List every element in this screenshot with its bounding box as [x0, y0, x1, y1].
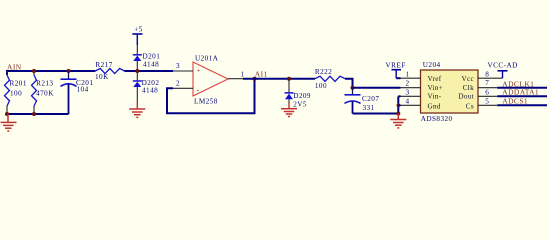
svg-text:Dout: Dout	[458, 93, 474, 101]
svg-text:R201: R201	[10, 80, 27, 88]
svg-text:8: 8	[485, 71, 489, 79]
svg-text:3: 3	[406, 88, 410, 96]
svg-text:R222: R222	[315, 68, 332, 76]
wire net ADDATA1	[497, 95, 547, 97]
junction diode clamp on AIN net	[135, 69, 139, 73]
junction D209 on AI1 net	[287, 77, 291, 81]
wire net ADCS1	[497, 104, 547, 106]
svg-text:LM258: LM258	[194, 97, 218, 105]
svg-text:100: 100	[315, 82, 327, 90]
wire VREF to pin 1	[396, 77, 400, 79]
pin 6 Dout of U204	[478, 95, 498, 97]
wire AIN left corner drop	[6, 70, 8, 75]
pin 2 Vin+ of U204	[401, 87, 421, 89]
svg-text:1: 1	[241, 71, 245, 79]
resistor R222	[315, 76, 345, 81]
svg-text:4148: 4148	[143, 61, 159, 69]
svg-text:4148: 4148	[142, 87, 158, 95]
wire R222 to Vin+ node	[345, 79, 353, 88]
junction feedback on output net	[253, 77, 257, 81]
svg-text:6: 6	[485, 88, 489, 96]
ground symbol below U204	[390, 114, 406, 128]
wire tie to pin 4 stub	[398, 104, 400, 106]
junction pin 4 on ground tie	[397, 104, 401, 108]
pin 1 Vref of U204	[401, 77, 421, 79]
pin 7 Clk of U204	[478, 87, 498, 89]
svg-text:104: 104	[77, 86, 89, 94]
resistor R217	[95, 68, 124, 73]
diode D201	[133, 45, 142, 71]
wire output net AI1	[243, 78, 315, 80]
wire tie to pin 3 stub	[398, 95, 400, 97]
pin 2 of U201A (inverting)	[173, 87, 193, 89]
wire feedback loop output to pin2	[167, 79, 255, 114]
svg-text:ADCS1: ADCS1	[502, 96, 528, 105]
power symbol VREF	[386, 62, 406, 79]
pin 5 Cs of U204	[478, 104, 498, 106]
svg-text:10K: 10K	[95, 73, 109, 81]
pin 3 of U201A (non-inverting)	[173, 70, 193, 72]
zener diode D209	[285, 79, 294, 109]
svg-text:Vin-: Vin-	[428, 93, 442, 101]
svg-text:7: 7	[485, 79, 489, 87]
svg-text:1: 1	[406, 71, 410, 79]
svg-text:R213: R213	[36, 80, 53, 88]
junction R213 bottom on ground bus	[32, 112, 36, 116]
svg-text:3: 3	[176, 62, 180, 70]
junction R201 bottom on ground bus	[5, 112, 9, 116]
svg-text:2: 2	[176, 80, 180, 88]
pin 8 Vcc of U204	[478, 77, 503, 79]
ground symbol below D202	[129, 109, 145, 117]
svg-text:Vcc: Vcc	[462, 75, 474, 83]
resistor R213	[32, 71, 37, 114]
power symbol VCC-AD	[488, 62, 518, 79]
svg-text:2: 2	[406, 80, 410, 88]
ADC U204 body	[421, 70, 479, 113]
op-amp U201A	[193, 62, 228, 96]
svg-text:R217: R217	[95, 61, 112, 69]
wire bottom ground bus	[6, 113, 69, 115]
capacitor C207	[345, 88, 361, 114]
svg-text:Vref: Vref	[428, 75, 442, 83]
junction C207 top node	[351, 86, 355, 90]
resistor R201	[5, 71, 10, 114]
svg-text:VCC-AD: VCC-AD	[488, 62, 518, 70]
wire pin3-pin4 ground tie	[397, 96, 399, 113]
wire node to pin 2 Vin+	[353, 87, 401, 89]
svg-text:Cs: Cs	[466, 102, 474, 110]
svg-text:+5: +5	[134, 26, 143, 34]
svg-text:D209: D209	[293, 92, 311, 100]
svg-text:-: -	[197, 86, 200, 95]
pin 3 Vin- of U204	[401, 95, 421, 97]
junction R213 top on AIN net	[32, 69, 36, 73]
capacitor C201	[61, 71, 77, 114]
ground symbol at input network	[1, 114, 17, 131]
ground symbol below D209	[281, 109, 297, 117]
svg-text:U204: U204	[423, 61, 441, 69]
svg-text:5: 5	[485, 97, 489, 105]
svg-text:4: 4	[406, 97, 410, 105]
svg-text:Clk: Clk	[463, 84, 474, 92]
svg-text:C207: C207	[362, 95, 379, 103]
svg-text:Gnd: Gnd	[428, 102, 441, 110]
power symbol +5	[132, 26, 143, 45]
wire C207 bottom to ground node	[353, 113, 399, 115]
junction ground node	[396, 112, 400, 116]
svg-text:470K: 470K	[36, 89, 54, 97]
svg-text:AI1: AI1	[255, 70, 268, 79]
svg-text:ADS8320: ADS8320	[421, 115, 453, 123]
pin 1 of U201A (output)	[228, 78, 243, 80]
svg-text:Vin+: Vin+	[428, 84, 444, 92]
junction C201 top on AIN net	[67, 69, 71, 73]
svg-text:D201: D201	[143, 53, 161, 61]
wire net AIN horizontal	[6, 70, 173, 72]
svg-text:331: 331	[363, 104, 375, 112]
svg-text:+: +	[197, 67, 201, 75]
wire net ADCLK1	[497, 87, 547, 89]
diode D202	[133, 71, 142, 109]
svg-text:2V5: 2V5	[293, 100, 307, 108]
svg-text:U201A: U201A	[195, 54, 219, 62]
pin 4 Gnd of U204	[401, 104, 421, 106]
svg-text:VREF: VREF	[386, 62, 406, 70]
svg-text:100: 100	[10, 89, 22, 97]
svg-text:ADDATA1: ADDATA1	[502, 87, 539, 96]
